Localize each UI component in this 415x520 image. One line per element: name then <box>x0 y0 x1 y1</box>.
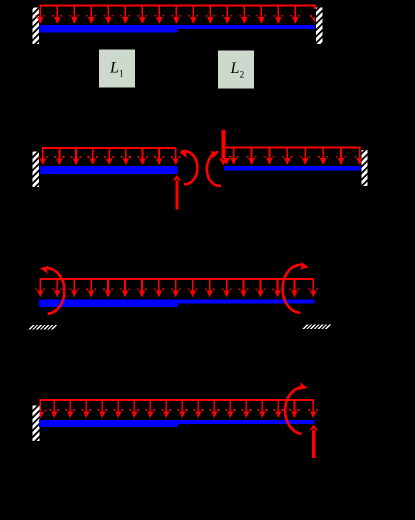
svg-text:L: L <box>230 60 240 77</box>
moment arc (row 2 right) <box>207 151 221 186</box>
distributed load arrows (row 2 right) <box>222 148 361 165</box>
thin beam segment (row 3) <box>178 299 315 303</box>
thin beam segment L2 (row 1) <box>178 25 316 29</box>
distributed load line (row 1) <box>40 6 315 10</box>
thick beam segment (row 2 left) <box>40 166 178 174</box>
partial load arrow at right wall (row 1) <box>310 15 315 23</box>
thin beam segment (row 4) <box>178 420 315 424</box>
svg-text:L: L <box>109 59 119 76</box>
distributed load arrows (row 1) <box>35 6 300 24</box>
fixed support wall left (row 2) <box>33 152 40 188</box>
thick beam segment (row 4) <box>39 420 178 427</box>
distributed load line (row 2 left) <box>42 147 176 149</box>
distributed load line (row 2 right) <box>226 147 361 149</box>
label L2 <box>218 50 254 88</box>
svg-text:2: 2 <box>240 70 245 80</box>
svg-text:1: 1 <box>119 70 124 80</box>
fixed support wall right (row 1) <box>316 8 323 45</box>
thick beam segment (row 3) <box>39 299 178 307</box>
partial load arrow at left wall (row 4) <box>40 400 46 418</box>
ground hatch right (row 3) <box>302 325 331 329</box>
moment arc (row 2 left) <box>180 151 198 185</box>
thick beam segment L1 (row 1) <box>39 25 178 33</box>
ground hatch left (row 3) <box>28 325 57 329</box>
shear reaction arrow up (row 2 left) <box>173 175 182 210</box>
fixed support wall left (row 1) <box>33 8 40 45</box>
moment arc left (row 3) <box>40 266 65 314</box>
fixed support wall right (row 2) <box>361 150 367 186</box>
distributed load line (row 3) <box>40 278 314 280</box>
moment arc right (row 3) <box>283 262 309 313</box>
fixed support wall left (row 4) <box>33 406 40 442</box>
thin beam segment (row 2 right) <box>224 166 361 170</box>
distributed load line (row 4) <box>40 399 314 401</box>
reaction arrow up (row 4) <box>309 425 318 459</box>
moment arc right (row 4) <box>285 382 307 433</box>
distributed load arrows (row 3) <box>35 279 318 297</box>
point load arrow down (row 2 right) <box>219 130 228 166</box>
label L1 <box>99 50 135 88</box>
distributed load arrows (row 4) <box>49 400 318 418</box>
distributed load arrows (row 2 left) <box>38 148 181 165</box>
